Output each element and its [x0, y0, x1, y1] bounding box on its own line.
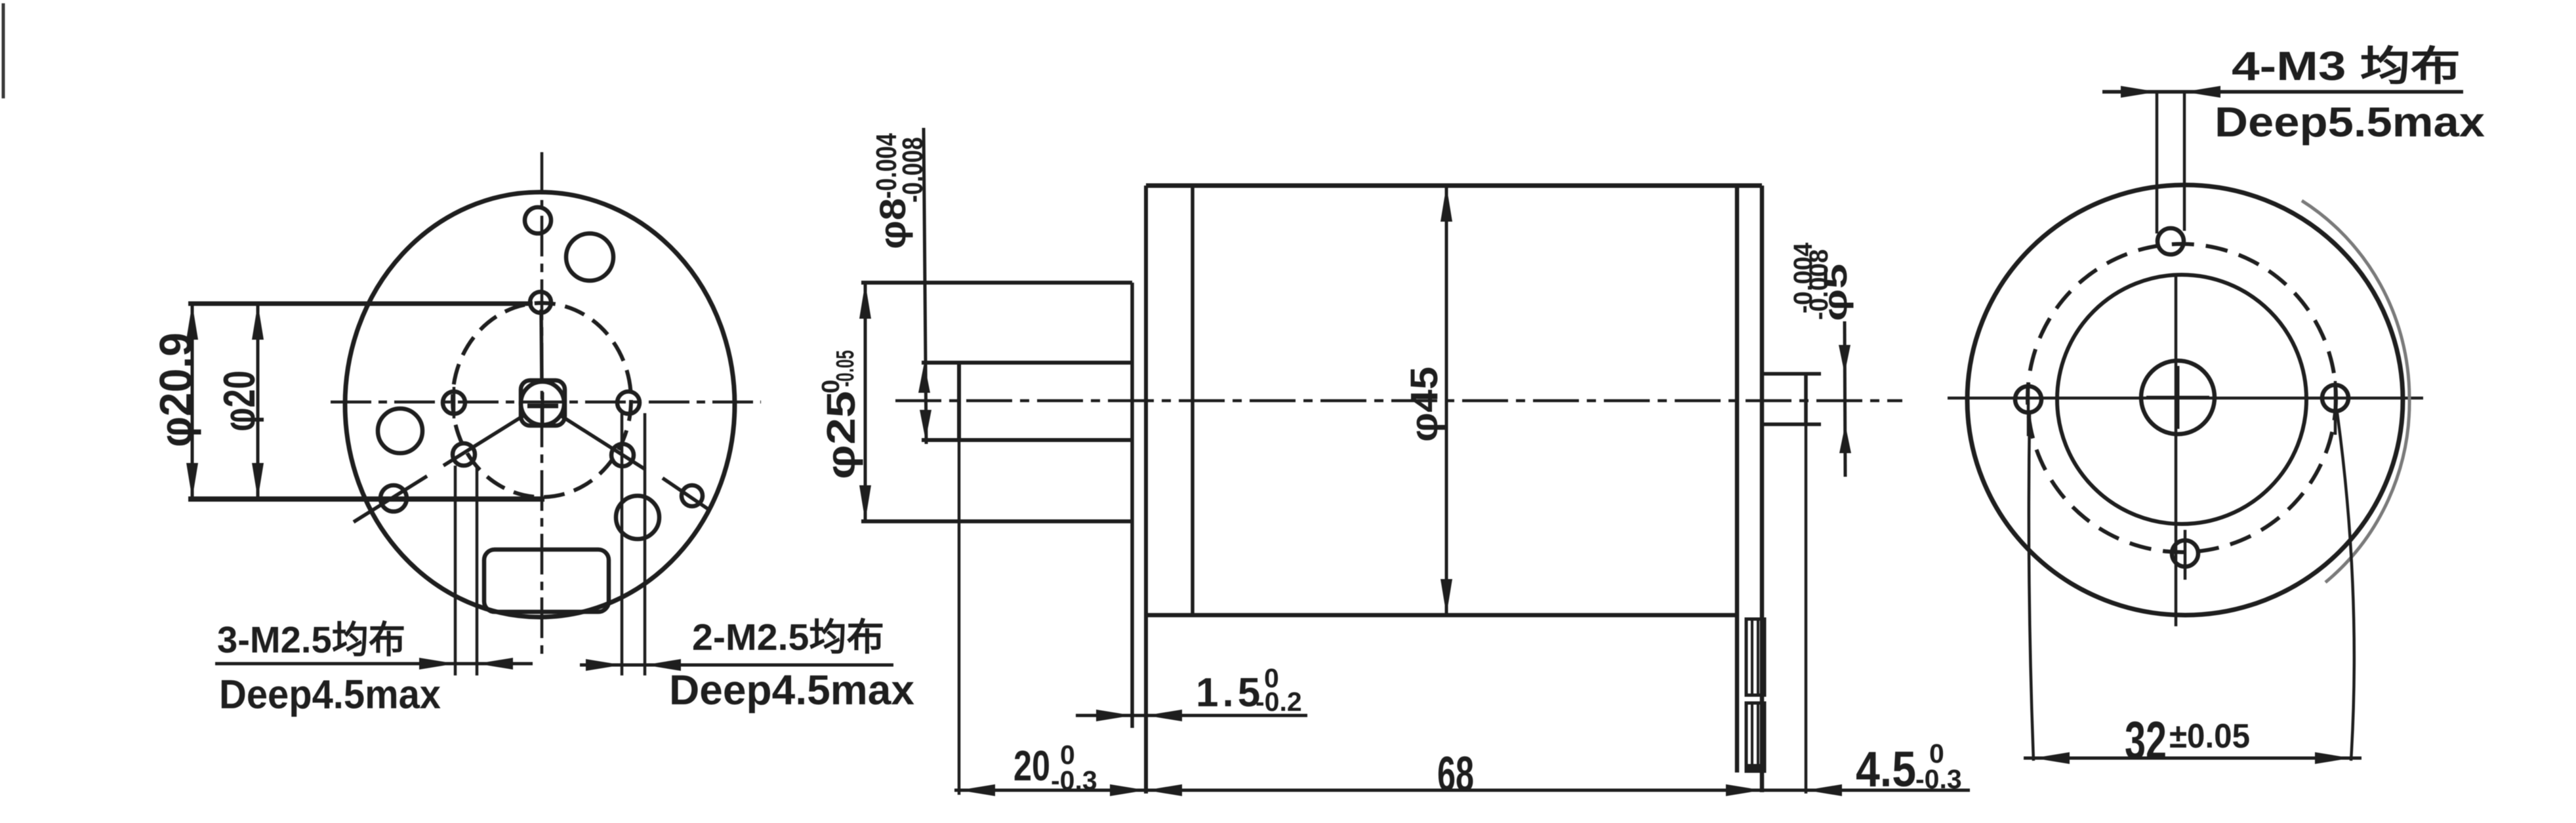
arrow 4-M3 right	[2184, 86, 2220, 98]
M3 hole (right)	[2322, 385, 2348, 411]
body bottom edge	[1146, 613, 1737, 618]
svg-text:4-M3 均布: 4-M3 均布	[2232, 44, 2461, 89]
arrow 2-M2.5 left	[586, 659, 622, 671]
front end-bell seam line	[1191, 186, 1195, 615]
svg-text:2-M2.5均布: 2-M2.5均布	[692, 616, 884, 658]
arrow 32 left	[2034, 752, 2070, 764]
dimension/leader line 4-M3	[2102, 90, 2463, 94]
extension line from right M2.5 hole (left edge)	[621, 413, 624, 675]
arrow 32 right	[2315, 752, 2351, 764]
center shaft hole circle	[521, 382, 564, 425]
rear seam line	[1735, 186, 1740, 773]
svg-text:-0.008: -0.008	[1805, 249, 1833, 320]
rear shaft top line	[1762, 372, 1821, 376]
arrow φ8 bottom	[920, 410, 931, 440]
M3 hole (top)	[2157, 228, 2184, 254]
arrow φ45 bottom	[1441, 579, 1452, 615]
svg-text:-0.3: -0.3	[1051, 765, 1097, 795]
rear face line / extension to dims	[1760, 186, 1765, 792]
extension from rear shaft end to 4.5 dim	[1805, 424, 1808, 793]
arrow 2-M2.5 right	[645, 659, 681, 671]
dimension line φ45	[1445, 186, 1448, 615]
extension line bottom (bolt circle bottom)	[188, 496, 544, 502]
svg-text:Deep4.5max: Deep4.5max	[669, 666, 914, 713]
right M3 hole tick	[2334, 381, 2337, 435]
front shaft end face	[957, 363, 961, 440]
extension line from top M3 hole (right)	[2183, 92, 2186, 231]
M2.5 hole (left, 2-M2.5 set)	[443, 391, 465, 414]
arrow φ20 bottom	[252, 463, 264, 499]
front view: motor front face	[150, 152, 914, 717]
arrow φ5 top (pointing down)	[1839, 345, 1850, 374]
front view vertical centerline	[541, 152, 544, 658]
boss front face line / extension to 1.5 dim	[1130, 283, 1134, 728]
rim hole (lower left)	[380, 485, 407, 512]
left M2.5 hole vertical tick	[453, 387, 456, 418]
svg-text:32: 32	[2125, 711, 2167, 771]
svg-text:φ25: φ25	[819, 391, 863, 479]
svg-text:φ20: φ20	[215, 371, 264, 432]
svg-text:-0.008: -0.008	[897, 137, 929, 203]
side view center axis line	[895, 399, 1902, 403]
rear bolt circle (dashed) φ32	[2028, 244, 2336, 552]
svg-text:20: 20	[1013, 742, 1050, 790]
scan ghost arc (double stroke) on rear outer circle right side	[2302, 201, 2409, 582]
svg-text:Deep4.5max: Deep4.5max	[219, 672, 441, 717]
dimension line 32	[2024, 757, 2361, 760]
arrow φ8 top	[918, 363, 930, 393]
rear horizontal centerline	[1948, 397, 2423, 400]
svg-text:-0.05: -0.05	[832, 350, 859, 387]
front shaft bottom line	[922, 438, 1132, 442]
spoke to lower-left M2.5 hole	[443, 414, 525, 466]
extension from shaft end to 20 dim	[958, 440, 961, 795]
rear end-bell inner circle	[2057, 275, 2306, 524]
dimension/leader line 3-M2.5	[215, 662, 533, 666]
dimension line φ8	[924, 128, 926, 444]
arrow 20 right	[1110, 784, 1146, 796]
center cross vertical tick	[541, 392, 544, 424]
arrow φ20 top	[252, 304, 264, 340]
arrow φ25 bottom	[859, 485, 871, 521]
svg-text:±0.05: ±0.05	[2169, 717, 2250, 755]
svg-text:φ8: φ8	[872, 198, 913, 249]
dimension line φ25	[864, 283, 867, 521]
svg-text:1.5: 1.5	[1196, 670, 1264, 715]
rear shaft hole circle	[2141, 361, 2215, 434]
front view horizontal centerline	[331, 401, 761, 404]
M3 hole (bottom)	[2172, 540, 2198, 567]
dimension line φ5	[1845, 321, 1845, 477]
arrow φ25 top	[859, 283, 871, 319]
arrow 3-M2.5 right	[477, 658, 513, 670]
arrow 4.5 right	[1806, 784, 1842, 796]
terminal lower inner line 1	[1751, 703, 1753, 771]
terminal lower end cap	[1745, 764, 1766, 771]
bolt circle (dashed) for M2.5 holes	[453, 303, 631, 497]
through hole (lower right)	[616, 496, 659, 539]
svg-text:68: 68	[1437, 746, 1474, 801]
rear outer circle	[1967, 185, 2403, 615]
arrow φ20.9 bottom	[186, 463, 198, 499]
M2.5 hole (lower-left, 3-M2.5 set)	[453, 443, 475, 466]
svg-text:3-M2.5均布: 3-M2.5均布	[217, 619, 405, 661]
svg-text:-0.2: -0.2	[1256, 687, 1302, 717]
bottom M3 hole tick	[2184, 530, 2187, 580]
svg-text:-0.3: -0.3	[1915, 764, 1962, 794]
M2.5 hole (top, 3-M2.5 set)	[530, 292, 551, 313]
svg-text:φ20.9: φ20.9	[150, 332, 201, 447]
arrow 1.5 right (tip at body face)	[1146, 710, 1182, 721]
arrow φ5 bottom (pointing up)	[1839, 424, 1851, 453]
φ25 boss bottom line / extension	[861, 519, 1132, 523]
M3 hole (left)	[2015, 386, 2041, 412]
M2.5 hole (lower-right, 3-M2.5 set)	[611, 444, 634, 466]
dimension line φ20.9	[191, 304, 194, 499]
terminal block lower	[1746, 703, 1765, 771]
extension line from lower-left M2.5 hole (right edge)	[476, 466, 479, 675]
arrow φ45 top	[1441, 186, 1452, 222]
terminal block upper	[1746, 619, 1765, 695]
arrow 4-M3 left	[2121, 86, 2157, 98]
connector rounded rectangle at bottom	[484, 550, 609, 612]
shaft boss rounded square	[521, 380, 565, 426]
front shaft top line	[922, 361, 1132, 365]
rim hole (top)	[525, 207, 551, 233]
M2.5 hole (right, 2-M2.5 set)	[617, 391, 640, 414]
spoke to lower-right M2.5 hole	[559, 414, 645, 470]
rear shaft end face	[1804, 374, 1808, 424]
arrow 68 left	[1146, 784, 1182, 796]
terminal upper inner line 1	[1751, 619, 1753, 695]
rear shaft bottom line	[1762, 422, 1821, 426]
spoke to top M2.5 hole	[541, 310, 542, 383]
svg-text:Deep5.5max: Deep5.5max	[2215, 98, 2485, 146]
extension line from top M3 hole (left)	[2156, 92, 2159, 233]
terminal upper inner line 2	[1757, 619, 1759, 695]
body front face line / extension to dims	[1144, 186, 1148, 793]
extension line from right M2.5 hole (right edge)	[644, 413, 647, 675]
radial tick through lower-right rim hole	[663, 478, 710, 510]
page edge scan artifact (top-left)	[2, 3, 5, 98]
arrow 1.5 left (tip at boss face)	[1096, 710, 1132, 721]
rear center cross horizontal	[2146, 396, 2209, 399]
rear view: motor back face	[1948, 44, 2485, 771]
dimension/leader line 2-M2.5	[580, 664, 893, 667]
center cross horizontal tick	[527, 404, 558, 409]
through hole (left)	[378, 409, 422, 453]
arrow φ20.9 top	[186, 304, 198, 340]
radial tick through lower-left rim hole	[354, 476, 427, 522]
through hole (upper right)	[566, 233, 613, 281]
extension from left M3 hole to 32 dim	[2029, 414, 2034, 761]
left M3 hole tick	[2027, 382, 2030, 436]
rear vertical centerline	[2175, 275, 2178, 626]
φ25 boss top line / extension	[861, 281, 1132, 285]
rim hole (lower right)	[682, 485, 703, 506]
terminal lower inner line 2	[1757, 703, 1759, 771]
arrow 20 left	[959, 784, 995, 796]
svg-text:φ45: φ45	[1403, 367, 1446, 442]
dimension line φ20	[256, 304, 260, 499]
bottom dimension line (20 / 68 / 4.5)	[954, 789, 1970, 792]
side view: motor body section	[817, 128, 1970, 801]
extension line top (bolt circle top)	[188, 302, 533, 306]
extension line from lower-left M2.5 hole (left edge)	[454, 466, 457, 675]
rear center cross vertical	[2177, 366, 2180, 429]
extension from right M3 hole to 32 dim	[2337, 413, 2354, 761]
svg-text:4.5: 4.5	[1856, 742, 1916, 797]
arrow 68 right / 4.5 left	[1726, 784, 1762, 796]
body top edge	[1146, 184, 1762, 188]
arrow 3-M2.5 left	[419, 658, 455, 670]
outer circle: motor front face outline	[345, 192, 735, 617]
dimension line 1.5	[1076, 714, 1307, 717]
